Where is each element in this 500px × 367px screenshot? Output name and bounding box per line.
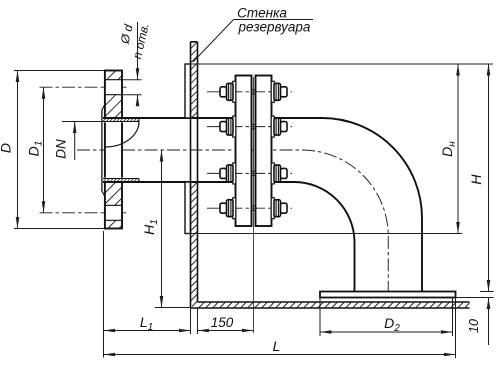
extension line top of backing flange (for DH and H) [185,63,493,65]
dimension DN extension line [62,121,103,123]
tank wall vertical strip [191,42,198,308]
pipe bore bell-mouth curve [105,122,139,148]
pipe flange raised face [102,105,105,197]
elbow inner arc [294,182,355,243]
dimension D2 line with arrows [320,330,453,334]
flange pair right plate [256,76,272,227]
dimension Od line with outside arrows [136,22,140,106]
flange pair left plate [236,76,252,227]
centerline pipe axis (horizontal + elbow arc + riser) [77,150,388,298]
dimension L1 label [140,314,153,333]
gasket gap centerline / 150-dimension extension line [253,77,255,333]
riser pipe right line [421,218,423,292]
dimension DN label [54,139,69,159]
dimension Od label [117,23,135,46]
dimension H1 line with arrows [160,150,164,308]
dimension L line with arrows [104,353,456,357]
svg-text:D: D [0,143,14,153]
extension line D2 left [319,298,321,337]
stud bolt with nuts and washers, row 4 [207,198,292,219]
pipe flange lower bolt hole [105,205,122,220]
pipe flange upper bolt hole [105,80,122,95]
dimension H1 label [141,219,160,235]
svg-text:H: H [468,174,484,185]
stud bolt with nuts and washers, row 2 [207,116,292,137]
pipe flange hatching upper sections [105,71,122,119]
dimension 10 extension lines [456,292,494,298]
extension line left flange face (for L1 and L) [103,231,105,358]
extension line D2 right [452,298,454,337]
riser pipe left line [354,243,356,292]
pipe flange hatching lower sections [105,182,122,229]
stud bolt with nuts and washers, row 1 [207,81,292,102]
tank bottom floor strip [191,302,470,308]
dimension 150 line with arrows [198,329,254,333]
extension line wall outer face (for L1) [190,308,192,334]
dimension H line with arrows [487,64,491,292]
leader line to tank wall [193,20,313,63]
elbow outer arc [322,118,422,218]
dimension 150 label [211,315,234,330]
svg-text:Стенка: Стенка [237,6,287,21]
pipe wall section strip bottom (hatched) [103,178,139,183]
dimension H label [468,174,484,185]
dimension H1 bottom extension line [155,307,191,309]
centerline upper bolt hole of pipe flange (D1 extension) [40,86,129,88]
pipe outer wall bottom line [103,181,294,183]
extension line bottom of backing flange (for DH) [185,233,462,235]
dimension D1 line with arrows [42,87,46,213]
pipe flange body outline [105,71,122,229]
stud bolt with nuts and washers, row 3 [207,163,292,184]
dimension 10 label [467,319,481,333]
dimension D2 label [384,315,400,334]
label Stenka rezervuara [237,6,311,35]
dimension L1 line with arrows [104,329,191,333]
dimension n otv label [130,22,152,61]
svg-text:DN: DN [54,139,69,159]
dimension D line with arrows [16,71,20,229]
dimension Od extension lines [122,80,142,95]
dimension D label [0,143,14,153]
dimension D extension lines [14,71,105,229]
dimension DH line with arrows [456,64,460,234]
extension line wall inner face (for 150) [197,308,199,334]
backing flange ring on outside of wall [185,64,191,234]
svg-text:L: L [273,338,281,354]
svg-text:резервуара: резервуара [238,20,311,35]
svg-text:10: 10 [467,319,481,333]
dimension 10 line with outside arrow and tail [487,298,491,346]
svg-text:150: 150 [211,315,234,330]
base flange plate [320,292,456,298]
pipe wall section strip top (hatched) [103,117,139,122]
dimension DN half line with arrow [73,122,77,161]
dimension DH label [439,141,458,157]
dimension L label [273,338,281,354]
centerline lower bolt hole of pipe flange (D1 extension) [40,212,129,214]
extension line base flange right edge (for L) [455,298,457,359]
dimension D1 label [26,141,45,157]
pipe outer wall top line [103,117,322,119]
